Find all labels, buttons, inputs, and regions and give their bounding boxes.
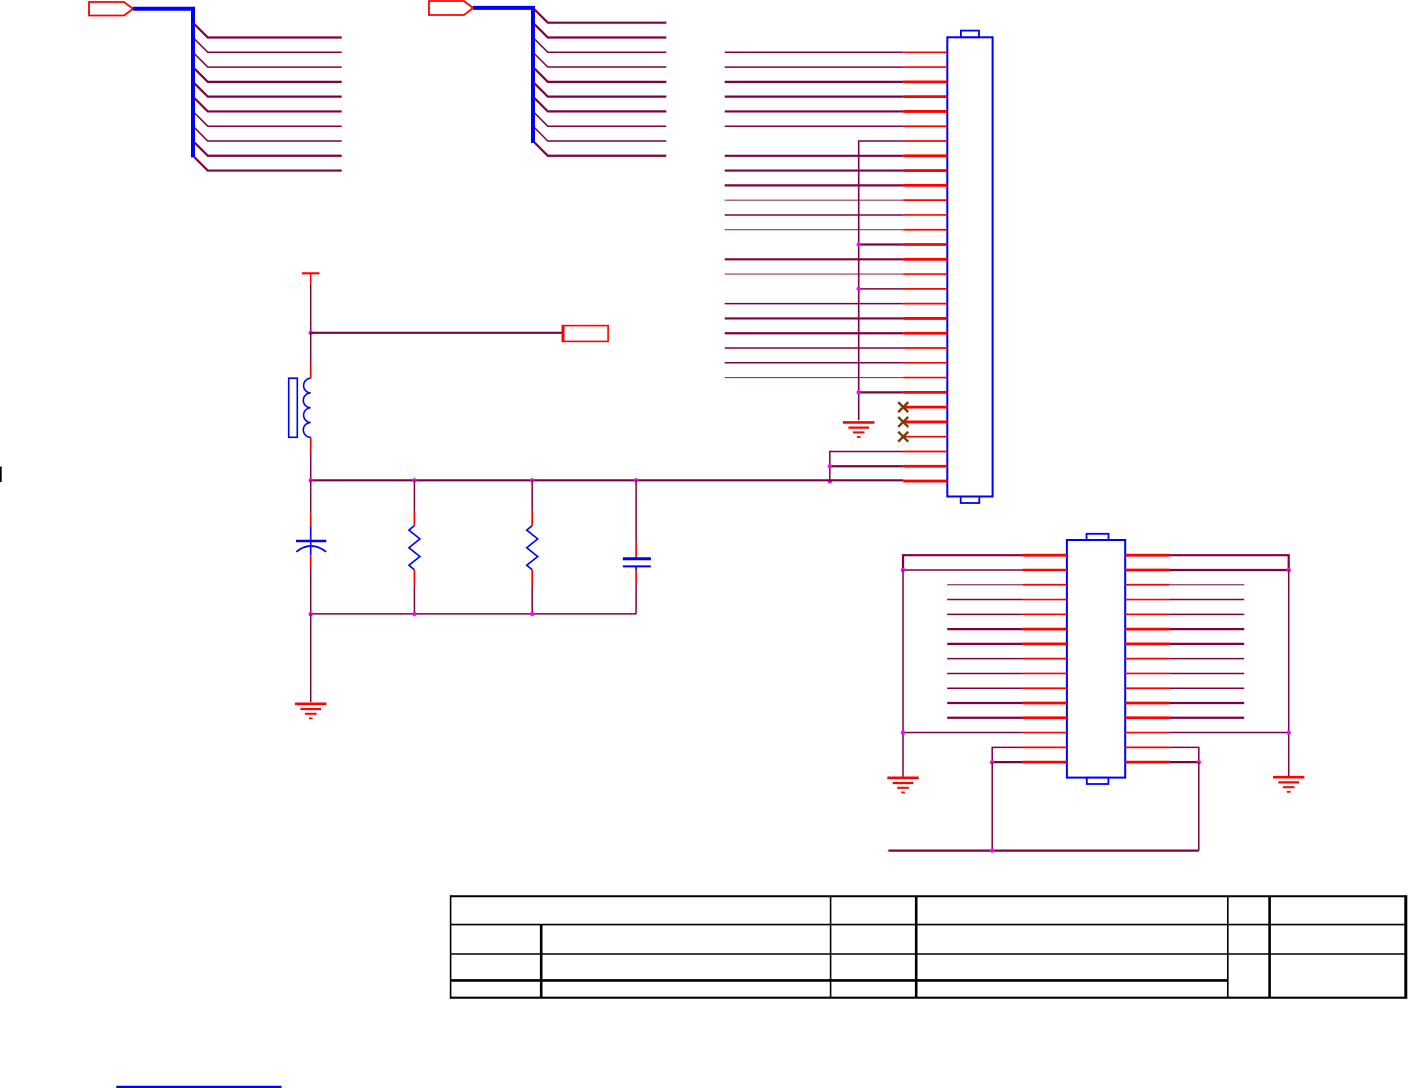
pin 1L of J2 [1023, 554, 1067, 557]
wire bus B1 branch 6 [195, 98, 342, 111]
pin 2R of J2 [1125, 569, 1169, 572]
junction node C at C1 [309, 612, 313, 616]
wire L1 to node B [310, 452, 312, 480]
net entry flag for bus B2 [429, 1, 473, 15]
no-connect J1 pin 25 [898, 402, 908, 412]
pin 5 of J1 [903, 110, 947, 113]
wire node A to port [311, 332, 563, 334]
inductor L1 [289, 378, 311, 437]
wire C2 to node C [635, 584, 637, 614]
pin 29 of J1 [903, 465, 947, 468]
wire node B to resistor R2 [531, 480, 533, 511]
wire to J2 pin 11L [947, 702, 1022, 704]
capacitor C2 [623, 557, 651, 571]
pin 17 of J1 [903, 288, 947, 290]
wire bus B1 branch 8 [195, 128, 342, 141]
wire bus B1 branch 2 [195, 39, 342, 52]
wire bus B1 branch 1 [195, 24, 342, 37]
wire to J1 pin 9 [725, 169, 904, 171]
wire to J1 pin 5 [725, 110, 904, 112]
wire corner to J2 pin 14L [992, 747, 1022, 762]
pin 13R of J2 [1125, 732, 1169, 734]
wire to J2 pin 8L [947, 658, 1022, 660]
junction right rail pin 2R [1287, 568, 1291, 572]
capacitor C1 (polarized) [296, 527, 326, 556]
wire to J2 pin 7R [1169, 643, 1244, 645]
pin 2 of C2 [635, 571, 637, 584]
pin 30 of J1 [903, 480, 947, 483]
wire to J2 pin 7L [947, 643, 1022, 645]
wire node A to inductor L1 [310, 333, 312, 364]
pin 12R of J2 [1125, 716, 1169, 719]
ground GND at node C [295, 704, 326, 719]
pin 11R of J2 [1125, 702, 1169, 705]
pin 12 of J1 [903, 214, 947, 216]
pin 28 of J1 [903, 451, 947, 453]
wire bus B2 branch 2 [535, 24, 667, 37]
pin 6L of J2 [1023, 628, 1067, 631]
wire to J1 pin 16 [725, 273, 904, 275]
pin 16 of J1 [903, 273, 947, 275]
no-connect J1 pin 26 [898, 417, 908, 427]
wire to J1 pin 18 [725, 303, 904, 305]
wire to J1 pin 23 [725, 377, 904, 379]
wire rail to J2 pin 2L [903, 569, 1023, 571]
pin 9L of J2 [1023, 672, 1067, 674]
wire node B to capacitor C2 [635, 480, 637, 541]
wire to J2 pin 4L [947, 599, 1022, 601]
pin 15 of J1 [903, 258, 947, 261]
wire to J1 pin 4 [725, 96, 904, 98]
wire to J2 pin 3L [947, 584, 1022, 586]
wire bus B2 branch 8 [535, 113, 667, 126]
pin 26 of J1 [903, 421, 947, 424]
wire C1 to node C [310, 568, 312, 614]
junction node B at R2 [530, 478, 534, 482]
wire bus B1 branch 9 [195, 143, 342, 156]
pin 8 of J1 [903, 154, 947, 157]
pin 4R of J2 [1125, 599, 1169, 601]
junction node B at C2 [634, 478, 638, 482]
junction node B at R1 [412, 478, 416, 482]
pin 18 of J1 [903, 303, 947, 305]
wire to J1 pin 13 [725, 229, 904, 231]
pin 5L of J2 [1023, 613, 1067, 615]
pin 7L of J2 [1023, 642, 1067, 645]
pin 7 of J1 [903, 140, 947, 142]
wire right ground rail [1288, 570, 1290, 777]
junction node B at C1 [309, 478, 313, 482]
wire to J2 pin 11R [1169, 702, 1244, 704]
wire bus B1 branch 3 [195, 54, 342, 67]
wire to J1 pin 6 [725, 125, 904, 127]
wire node C horizontal [311, 613, 636, 615]
wire rail to J2 pin 2R [1169, 569, 1288, 571]
junction at box bottom [990, 848, 994, 852]
pin 27 of J1 [903, 436, 947, 438]
title block table [451, 895, 1407, 999]
junction at pin 30 branch [828, 479, 832, 483]
connector J1 bottom tab [961, 497, 980, 504]
bus B1 [133, 9, 193, 158]
wire to J1 pin 1 [725, 51, 904, 53]
wire bus B2 branch 5 [535, 69, 667, 82]
pin 25 of J1 [903, 406, 947, 409]
wire to J2 pin 10L [947, 687, 1022, 689]
connector J2 bottom tab [1087, 778, 1109, 784]
connector J1 top tab [961, 31, 979, 38]
wire rail to J1 pin 24 [859, 391, 904, 393]
wire to J2 pin 4R [1169, 599, 1244, 601]
pin 13 of J1 [903, 229, 947, 231]
wire to J1 pin 8 [725, 155, 904, 157]
wire to J2 pin 6L [947, 628, 1022, 630]
pin 9 of J1 [903, 169, 947, 172]
pin 10L of J2 [1023, 687, 1067, 689]
ground GND left of J2 [887, 778, 918, 793]
pin 2 of R1 [413, 570, 415, 586]
pin 1R of J2 [1125, 554, 1169, 557]
wire power stub to node A [310, 285, 312, 333]
wire node B horizontal to J1 pin 30 [311, 479, 904, 481]
pin 20 of J1 [903, 332, 947, 335]
pin 3 of J1 [903, 80, 947, 83]
pin 1 of R1 [413, 511, 415, 526]
pin 11 of J1 [903, 199, 947, 201]
pin 1 of L1 [310, 364, 312, 378]
wire bus B2 branch 1 [535, 10, 667, 23]
junction right rail pin 13R [1287, 730, 1291, 734]
wire bus B2 branch 6 [535, 83, 667, 96]
wire box bottom horizontal [888, 849, 1198, 851]
pin 1 of C2 [635, 541, 637, 557]
wire to J1 pin 12 [725, 214, 904, 216]
pin 21 of J1 [903, 347, 947, 349]
wire bus B1 branch 10 [195, 157, 342, 170]
pin 8R of J2 [1125, 658, 1169, 660]
pin 2 of C1 [310, 555, 312, 569]
wire to J2 pin 10R [1169, 687, 1244, 689]
pin 4 of J1 [903, 95, 947, 98]
ground GND at J1 rail [843, 422, 874, 437]
wire left box vertical [991, 762, 993, 850]
pin 15R of J2 [1125, 761, 1169, 764]
resistor R2 [527, 526, 538, 570]
wire to J2 pin 6R [1169, 628, 1244, 630]
pin 1 of C1 [310, 513, 312, 526]
pin 2 of J1 [903, 66, 947, 68]
wire to J1 pin 29 [830, 465, 903, 467]
hierarchical port [562, 325, 608, 342]
pin 1 of R2 [531, 511, 533, 526]
wire left ground rail [902, 570, 904, 777]
wire bus B1 branch 7 [195, 113, 342, 126]
junction on rail at pin 14 [857, 242, 861, 246]
pin 11L of J2 [1023, 702, 1067, 705]
wire rail to J2 pin 13L [903, 732, 1023, 734]
pin 8L of J2 [1023, 658, 1067, 660]
junction node C at R2 [530, 612, 534, 616]
net entry flag for bus B1 [89, 2, 133, 16]
junction at pin 29 branch [828, 464, 832, 468]
wire to J1 pin 2 [725, 66, 904, 68]
wire R2 to node C [531, 586, 533, 614]
pin 2 of L1 [310, 437, 312, 452]
wire to J2 pin 9L [947, 672, 1022, 674]
pin 19 of J1 [903, 317, 947, 320]
wire to J1 pin 3 [725, 81, 904, 83]
pin 3L of J2 [1023, 584, 1067, 586]
wire to J1 pin 21 [725, 347, 904, 349]
wire cropped at bottom edge [116, 1086, 281, 1088]
wire bus B2 branch 3 [535, 39, 667, 52]
wire node C to ground [310, 614, 312, 702]
pin 1 of J1 [903, 51, 947, 53]
ground GND right of J2 [1273, 777, 1304, 792]
wire to J1 pin 15 [725, 258, 904, 260]
wire node B to resistor R1 [413, 480, 415, 511]
wire bus B1 branch 5 [195, 83, 342, 96]
pin 6 of J1 [903, 125, 947, 127]
wire node B to capacitor C1 [310, 480, 312, 513]
wire to J1 pin 20 [725, 332, 904, 334]
pin 2L of J2 [1023, 569, 1067, 571]
wire bus B1 branch 4 [195, 69, 342, 82]
junction on rail at pin 17 [857, 287, 861, 291]
pin 14L of J2 [1023, 746, 1067, 748]
power terminal stub [302, 273, 320, 284]
wire corner to J1 pin 28 [830, 452, 903, 482]
pin 15L of J2 [1023, 761, 1067, 764]
pin 4L of J2 [1023, 599, 1067, 601]
wire to J2 pin 8R [1169, 658, 1244, 660]
wire corner to J2 pin 14R [1169, 747, 1198, 762]
wire R1 to node C [413, 586, 415, 614]
connector J1 body [947, 37, 992, 496]
wire to J2 pin 15R [1169, 761, 1198, 763]
pin 24 of J1 [903, 391, 947, 394]
wire rail to J1 pin 17 [859, 288, 904, 290]
wire to J1 pin 11 [725, 199, 904, 201]
wire to J2 pin 5L [947, 613, 1022, 615]
wire right box vertical [1198, 762, 1200, 850]
pin 23 of J1 [903, 377, 947, 379]
pin 12L of J2 [1023, 716, 1067, 719]
wire bus B2 branch 10 [535, 143, 667, 156]
junction at pin 15L [990, 760, 994, 764]
wire corner to J2 pin 1L [903, 555, 1023, 570]
junction node A [309, 331, 313, 335]
junction on rail at pin 24 [857, 390, 861, 394]
wire bus B2 branch 9 [535, 128, 667, 141]
wire to J2 pin 5R [1169, 613, 1244, 615]
bus B2 [473, 8, 533, 143]
pin 22 of J1 [903, 362, 947, 364]
wire to J1 pin 22 [725, 362, 904, 364]
pin 10R of J2 [1125, 687, 1169, 689]
pin 3R of J2 [1125, 584, 1169, 586]
pin 7R of J2 [1125, 642, 1169, 645]
pin 13L of J2 [1023, 732, 1067, 734]
wire to J1 pin 10 [725, 184, 904, 186]
junction left rail pin 13L [901, 730, 905, 734]
pin 6R of J2 [1125, 628, 1169, 631]
pin 2 of R2 [531, 570, 533, 586]
wire to J2 pin 3R [1169, 584, 1244, 586]
connector J2 top tab [1087, 534, 1109, 540]
wire rail to J1 pin 14 [859, 243, 904, 245]
wire to J2 pin 12R [1169, 717, 1244, 719]
junction left rail pin 2L [901, 568, 905, 572]
wire bus B2 branch 7 [535, 98, 667, 111]
wire bus B2 branch 4 [535, 54, 667, 67]
pin 14R of J2 [1125, 746, 1169, 748]
pin 5R of J2 [1125, 613, 1169, 615]
connector J2 body [1067, 540, 1125, 778]
wire to J2 pin 15L [992, 761, 1022, 763]
wire rail to J2 pin 13R [1169, 732, 1288, 734]
pin 14 of J1 [903, 243, 947, 246]
wire corner to J2 pin 1R [1169, 555, 1288, 570]
wire ground rail corner to J1 pin 7 [859, 141, 904, 420]
resistor R1 [409, 526, 420, 570]
wire to J1 pin 19 [725, 317, 904, 319]
cropped text mark at left edge [0, 467, 2, 483]
pin 10 of J1 [903, 184, 947, 187]
wire to J2 pin 9R [1169, 672, 1244, 674]
no-connect J1 pin 27 [898, 432, 908, 442]
pin 9R of J2 [1125, 672, 1169, 674]
junction at pin 15R [1197, 760, 1201, 764]
junction node C at R1 [412, 612, 416, 616]
wire to J2 pin 12L [947, 717, 1022, 719]
